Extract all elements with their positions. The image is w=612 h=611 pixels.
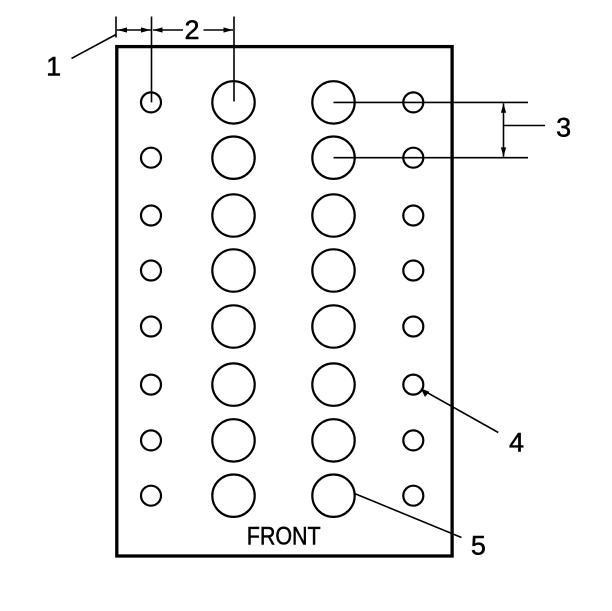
hole r4c4 <box>403 261 423 281</box>
svg-text:3: 3 <box>556 113 571 143</box>
hole r2c3 <box>312 137 354 179</box>
leader line callout 5 <box>355 494 462 538</box>
row 1 hole centerline <box>334 101 529 103</box>
arrowhead right of dimension 2 <box>224 27 234 32</box>
svg-text:FRONT: FRONT <box>247 523 321 551</box>
arrowhead right of edge dimension <box>141 27 151 32</box>
hole r6c2 <box>212 363 254 405</box>
hole r8c4 <box>403 486 423 506</box>
hole r5c3 <box>312 305 354 347</box>
hole r3c3 <box>312 194 354 236</box>
svg-text:4: 4 <box>509 428 524 458</box>
svg-text:2: 2 <box>184 15 199 45</box>
arrowhead left of edge dimension <box>118 27 128 32</box>
dimension 3 label line <box>504 125 546 127</box>
arrowhead top of dimension 3 <box>501 103 506 113</box>
hole r4c3 <box>312 249 354 291</box>
hole r1c3 <box>312 81 354 123</box>
hole r8c2 <box>212 475 254 517</box>
hole r2c2 <box>212 137 254 179</box>
hole r7c4 <box>403 430 423 450</box>
leader line callout 1 <box>72 35 117 59</box>
dimension 3 vertical line <box>503 103 505 156</box>
hole r2c1 <box>141 148 161 168</box>
extension line at plate edge <box>115 17 117 38</box>
hole r5c4 <box>403 317 423 337</box>
hole r3c2 <box>212 194 254 236</box>
extension line at hole column 1 <box>151 17 153 103</box>
hole r1c2 <box>212 81 254 123</box>
dimension line edge-to-col1 <box>117 29 151 31</box>
plate outline <box>117 47 452 556</box>
arrowhead of leader callout 4 <box>421 388 430 397</box>
hole r2c4 <box>403 148 423 168</box>
hole r3c1 <box>141 206 161 226</box>
arrowhead left of dimension 2 <box>153 27 163 32</box>
hole r5c1 <box>141 317 161 337</box>
hole r8c3 <box>312 475 354 517</box>
hole r8c1 <box>141 486 161 506</box>
dimension 2 line right part <box>204 29 234 31</box>
hole r5c2 <box>212 305 254 347</box>
hole r4c1 <box>141 261 161 281</box>
hole r1c1 <box>141 92 161 112</box>
hole r1c4 <box>403 92 423 112</box>
hole r7c1 <box>141 430 161 450</box>
hole r6c4 <box>403 375 423 395</box>
svg-text:1: 1 <box>46 51 61 81</box>
hole r7c3 <box>312 419 354 461</box>
dimension 2 line left part <box>153 29 183 31</box>
extension line at hole column 2 <box>233 17 235 102</box>
hole r6c3 <box>312 363 354 405</box>
hole r4c2 <box>212 249 254 291</box>
row 2 hole centerline <box>334 157 529 159</box>
arrowhead bottom of dimension 3 <box>501 147 506 157</box>
leader line callout 4 <box>422 389 499 432</box>
svg-text:5: 5 <box>471 531 486 561</box>
hole r3c4 <box>403 206 423 226</box>
hole r6c1 <box>141 375 161 395</box>
hole r7c2 <box>212 419 254 461</box>
